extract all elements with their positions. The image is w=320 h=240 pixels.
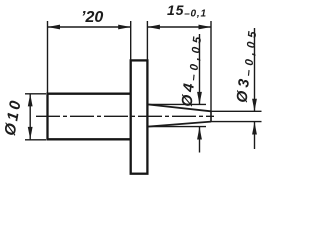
dim 20: left arrowhead: [48, 25, 61, 30]
dim Ø3-0,05: bottom extension line: [211, 121, 262, 123]
dim Ø3-0,05: upper dimension line: [254, 28, 256, 111]
dim Ø4-0,05: top extension line: [147, 103, 206, 105]
centerline: [36, 115, 214, 117]
dim Ø10: bottom extension stub: [25, 139, 46, 141]
dim Ø4-0,05: lower dimension line: [199, 127, 201, 153]
dim Ø10: bottom arrowhead: [28, 127, 33, 139]
dim 15-0,1: right arrowhead: [199, 25, 212, 30]
dim Ø10: dimension line: [29, 94, 31, 139]
needle taper bottom edge: [147, 122, 211, 127]
dim Ø4-0,05: upper arrowhead pointing down: [197, 92, 202, 105]
flange rectangle: [131, 60, 148, 173]
dim Ø4-0,05: lower arrowhead pointing up: [197, 127, 202, 140]
dim 20: dimension line: [48, 26, 131, 28]
dim 20: right arrowhead: [118, 25, 131, 30]
dim 15-0,1: left arrowhead: [147, 25, 160, 30]
dim 15-0,1: right extension line: [210, 21, 212, 122]
svg-text:’20: ’20: [81, 9, 103, 26]
dim Ø4-0,05: bottom extension line: [147, 126, 206, 128]
dim Ø10: top extension stub: [25, 93, 46, 95]
needle tip end face: [210, 111, 212, 122]
dim Ø3-0,05: lower dimension line: [254, 122, 256, 149]
dim Ø3-0,05: lower arrowhead pointing up: [252, 122, 257, 135]
dim 15-0,1: left extension above flange: [146, 21, 148, 60]
dim 15-0,1: dimension line: [147, 26, 211, 28]
body Ø10 shaft outline: [48, 94, 131, 140]
dim Ø3-0,05: upper arrowhead pointing down: [252, 99, 257, 112]
needle taper top edge: [147, 104, 211, 111]
dim 20: left extension line: [47, 21, 49, 93]
dim 20: right extension above flange: [130, 21, 132, 60]
dim Ø3-0,05: top extension line: [211, 110, 262, 112]
dim Ø10: top arrowhead: [28, 94, 33, 107]
dim Ø4-0,05: upper dimension line: [199, 34, 201, 104]
